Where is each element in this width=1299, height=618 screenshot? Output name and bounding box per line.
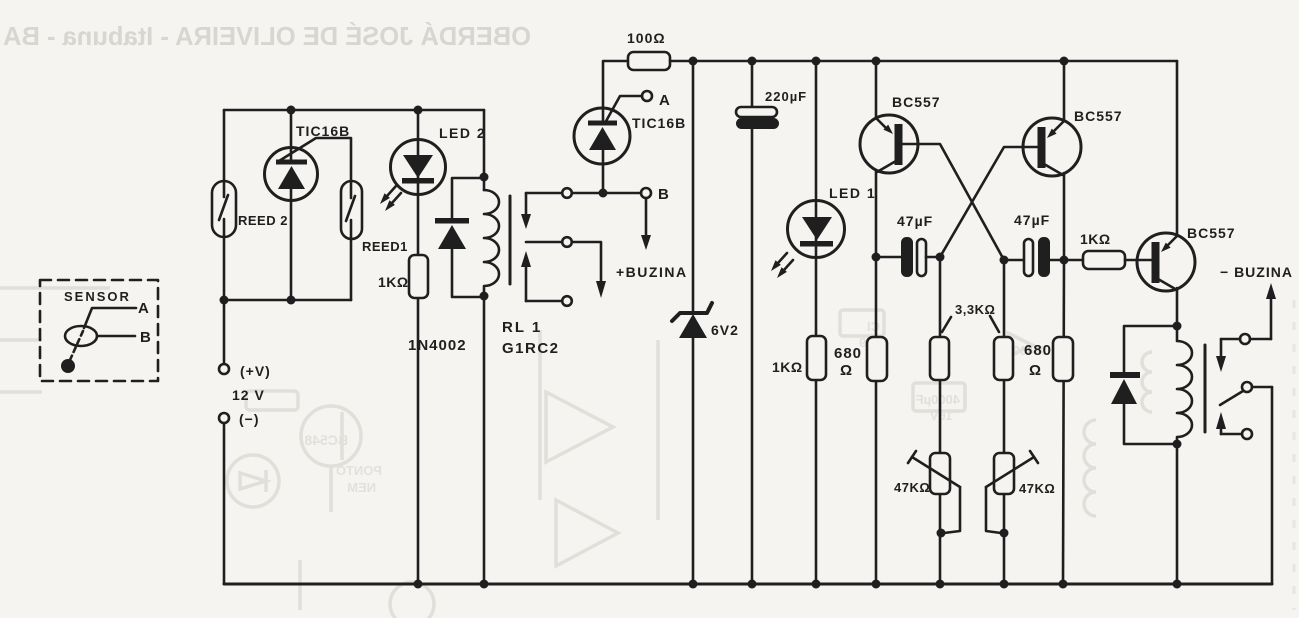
zener diode 6V2 xyxy=(672,303,712,338)
svg-text:1KΩ: 1KΩ xyxy=(378,274,409,290)
svg-text:SENSOR: SENSOR xyxy=(64,289,131,304)
resistor 1K (LED1 column) xyxy=(807,336,826,380)
wire cap 47uF(1) to node xyxy=(926,256,940,259)
relay RL1 core bar xyxy=(509,196,512,284)
diode (relay flyback) xyxy=(1110,372,1140,404)
trimmer 47K (1) xyxy=(908,451,960,494)
resistor 680 (1) xyxy=(867,337,887,381)
wire B line xyxy=(572,192,641,195)
LED LED1 xyxy=(788,201,845,258)
svg-text:47µF: 47µF xyxy=(897,213,933,229)
relay coil (output relay) xyxy=(1177,326,1192,444)
wire 1K to Q3 base xyxy=(1125,259,1151,262)
wire +BUZINA output arrow xyxy=(572,242,606,298)
wire zener column xyxy=(692,61,695,313)
node coil bottom junction xyxy=(480,292,489,301)
svg-text:B: B xyxy=(140,329,152,346)
LED2 emission arrows xyxy=(380,186,401,211)
node top rail zener xyxy=(689,57,698,66)
trimmer 47K (2) xyxy=(986,451,1038,494)
wire TIC16B(2) anode from 100ohm xyxy=(603,61,628,121)
label pointer 3.3K right xyxy=(990,316,999,332)
node bottom rail relay2 xyxy=(1173,580,1182,589)
terminal B xyxy=(641,188,651,198)
wire coil bottom to rail xyxy=(483,296,486,584)
svg-text:680: 680 xyxy=(1024,342,1052,359)
svg-text:TIC16B: TIC16B xyxy=(296,123,350,139)
wire node to cap 47uF(2) xyxy=(1004,259,1024,262)
svg-text:BC548: BC548 xyxy=(304,432,348,448)
wire 220uF column bottom xyxy=(751,129,754,584)
wire zener to bottom rail xyxy=(692,338,695,584)
wire junction to +V terminal xyxy=(223,300,226,364)
node bottom rail 220uF xyxy=(748,580,757,589)
node relay2 coil bottom junction xyxy=(1173,440,1182,449)
terminal +V xyxy=(219,364,229,374)
svg-text:12 V: 12 V xyxy=(232,387,265,403)
wire Q3 emitter column xyxy=(1176,61,1179,236)
wire sensor terminal B lead xyxy=(97,335,135,338)
svg-text:6V2: 6V2 xyxy=(711,322,739,338)
terminal A xyxy=(642,91,652,101)
wire top-left rail xyxy=(224,109,484,112)
wire relay2 common to bottom rail xyxy=(1178,387,1272,584)
svg-text:− BUZINA: − BUZINA xyxy=(1220,264,1293,280)
thyristor TIC16B (second) xyxy=(574,108,630,164)
wire left column upper xyxy=(223,110,226,181)
LED1 emission arrows xyxy=(771,253,793,278)
thyristor TIC16B (left) xyxy=(265,148,318,201)
node trimmer1 junction xyxy=(937,529,946,538)
wire cap 47uF(2) to 1K xyxy=(1050,259,1083,262)
resistor 680 (2) xyxy=(1053,337,1073,381)
relay2 core bar xyxy=(1204,345,1207,432)
wire LED1 column xyxy=(815,61,818,584)
svg-text:A: A xyxy=(659,92,671,109)
node bottom rail 3.3K-2 xyxy=(1000,580,1009,589)
node rail2-TIC16B junction xyxy=(287,106,296,115)
svg-text:47µF: 47µF xyxy=(1014,212,1050,228)
node top rail LED1 xyxy=(812,57,821,66)
wire diode 1N4002 bottom link xyxy=(452,249,484,297)
node bottom rail zener xyxy=(689,580,698,589)
wire 3.3K(2) column xyxy=(1003,260,1006,584)
svg-text:G1RC2: G1RC2 xyxy=(502,340,560,357)
wire -BUZINA output arrow xyxy=(1250,283,1276,339)
wire sensor terminal A lead xyxy=(84,308,136,328)
node bottom rail relay1col xyxy=(480,580,489,589)
node +V junction xyxy=(220,296,229,305)
transistor Q2 BC557 xyxy=(1023,118,1081,176)
node Q2 collector junction xyxy=(1060,256,1069,265)
relay RL1 top contact xyxy=(521,188,572,229)
node bottom rail 680-1 xyxy=(872,580,881,589)
wire top rail xyxy=(670,60,1177,63)
wire 3.3K(1) column xyxy=(939,257,942,584)
svg-text:(−): (−) xyxy=(239,411,260,427)
node top rail Q1 xyxy=(872,57,881,66)
wire REED2 bottom to junction line xyxy=(223,237,226,300)
wire sensor dashed magnet axis xyxy=(70,331,83,360)
node TIC16B cathode junction xyxy=(287,296,296,305)
relay2 top contact xyxy=(1216,334,1250,372)
wire flyback diode top link xyxy=(1124,326,1177,373)
label pointer 3.3K left xyxy=(942,317,951,332)
node cap2-R3.3K junction xyxy=(1000,256,1009,265)
node Q1 collector junction xyxy=(872,253,881,262)
svg-text:220µF: 220µF xyxy=(765,89,807,104)
node bottom rail LED2col xyxy=(414,580,423,589)
svg-text:Ω: Ω xyxy=(1029,362,1042,379)
svg-text:100Ω: 100Ω xyxy=(627,30,666,46)
wire REED1 bottom xyxy=(350,239,353,300)
relay RL1 coil xyxy=(484,190,499,296)
wire -V to bottom rail xyxy=(223,423,226,584)
node trimmer2 junction xyxy=(1000,529,1009,538)
transistor Q1 BC557 xyxy=(860,115,918,173)
capacitor 47uF (right) xyxy=(1024,237,1050,277)
wire diode 1N4002 top link xyxy=(452,178,484,219)
svg-text:BC557: BC557 xyxy=(1074,108,1123,124)
wire Q2 base lead xyxy=(940,147,1037,257)
wire TIC16B(2) gate to A xyxy=(605,96,642,123)
wire TIC16B cathode xyxy=(290,189,293,300)
reed switch REED1 xyxy=(341,181,362,239)
sensor box (dashed) xyxy=(40,280,158,381)
wire relay2 to bottom rail xyxy=(1176,444,1179,584)
relay2 middle contact xyxy=(1220,382,1272,405)
resistor 1K (LED2 column) xyxy=(409,255,428,298)
node cap1-R3.3K junction xyxy=(936,253,945,262)
wire trimmer2 wiper xyxy=(986,487,1001,533)
svg-text:4000µF: 4000µF xyxy=(916,392,960,407)
node bottom rail LED1col xyxy=(812,580,821,589)
node B line junction xyxy=(599,189,608,198)
wire TIC16B(2) cathode xyxy=(602,150,605,193)
relay2 bottom contact xyxy=(1216,412,1252,439)
reed switch REED2 xyxy=(212,181,236,237)
wire Q3 collector xyxy=(1176,288,1179,326)
svg-text:Ω: Ω xyxy=(840,362,853,379)
relay RL1 bottom contact xyxy=(521,251,572,306)
svg-text:3,3KΩ: 3,3KΩ xyxy=(955,302,995,317)
resistor 1K (Q3 base) xyxy=(1083,251,1125,269)
sensor ellipse xyxy=(65,326,97,346)
diode 1N4002 xyxy=(435,218,469,249)
node relay2 coil top junction xyxy=(1173,322,1182,331)
wire flyback diode bottom link xyxy=(1124,404,1177,444)
wire LED2 column xyxy=(417,110,420,584)
svg-text:+BUZINA: +BUZINA xyxy=(616,264,688,280)
svg-text:CI: CI xyxy=(867,319,880,334)
resistor 3.3K (2) xyxy=(994,337,1013,380)
capacitor 47uF (left) xyxy=(901,237,926,277)
wire Q1 collector xyxy=(875,170,878,257)
svg-text:680: 680 xyxy=(834,345,862,362)
svg-text:LED 2: LED 2 xyxy=(439,125,486,141)
node bottom rail 3.3K-1 xyxy=(936,580,945,589)
svg-text:B: B xyxy=(658,186,670,203)
wire left junction line xyxy=(224,299,351,302)
svg-text:RL 1: RL 1 xyxy=(502,319,542,336)
LED LED2 xyxy=(391,140,446,195)
svg-text:BC557: BC557 xyxy=(892,94,941,110)
wire Q1 base lead xyxy=(902,144,1004,260)
wire 680(2) column xyxy=(1063,260,1064,584)
wire 680(1) column xyxy=(875,257,878,584)
svg-text:A: A xyxy=(138,300,150,317)
node coil top junction xyxy=(480,173,489,182)
sensor magnet dot xyxy=(61,359,75,373)
svg-text:1KΩ: 1KΩ xyxy=(1080,231,1111,247)
node top rail 220uF xyxy=(748,57,757,66)
wire junction to cap 47uF(1) xyxy=(876,256,901,259)
wire relay coil column top xyxy=(483,110,486,190)
svg-text:TIC16B: TIC16B xyxy=(632,115,686,131)
resistor 3.3K (1) xyxy=(930,337,949,380)
resistor 100ohm xyxy=(628,52,670,70)
svg-text:1KΩ: 1KΩ xyxy=(772,359,803,375)
wire 220uF column top xyxy=(751,61,754,107)
wire Q2 emitter column xyxy=(1063,61,1066,121)
svg-text:PONTO: PONTO xyxy=(336,463,382,478)
svg-text:47KΩ: 47KΩ xyxy=(894,480,930,495)
svg-text:LED 1: LED 1 xyxy=(829,185,876,201)
svg-text:BC557: BC557 xyxy=(1187,225,1236,241)
wire TIC16B anode xyxy=(290,110,293,160)
wire Q2 collector xyxy=(1063,173,1066,260)
transistor Q3 BC557 xyxy=(1137,233,1195,291)
node rail2-LED2 junction xyxy=(414,106,423,115)
relay RL1 middle contact xyxy=(526,237,572,247)
terminal -V xyxy=(219,413,229,423)
svg-text:47KΩ: 47KΩ xyxy=(1019,481,1055,496)
svg-text:OBERDÁ JOSÉ DE OLIVEIRA - Itab: OBERDÁ JOSÉ DE OLIVEIRA - Itabuna - BA xyxy=(3,21,531,51)
svg-text:(+V): (+V) xyxy=(240,363,271,379)
capacitor 220uF xyxy=(736,107,779,129)
node top rail Q2 xyxy=(1060,57,1069,66)
wire TIC16B gate to REED1 xyxy=(279,138,351,181)
svg-text:REED 2: REED 2 xyxy=(238,213,288,228)
svg-text:REED1: REED1 xyxy=(362,239,408,254)
node bottom rail 680-2 xyxy=(1059,580,1068,589)
svg-text:1N4002: 1N4002 xyxy=(408,337,467,354)
wire B output arrow xyxy=(641,198,651,250)
wire bottom rail xyxy=(224,583,1272,586)
wire trimmer1 wiper xyxy=(944,487,960,533)
svg-text:NEM: NEM xyxy=(347,480,376,495)
wire Q1 emitter column xyxy=(875,61,878,118)
